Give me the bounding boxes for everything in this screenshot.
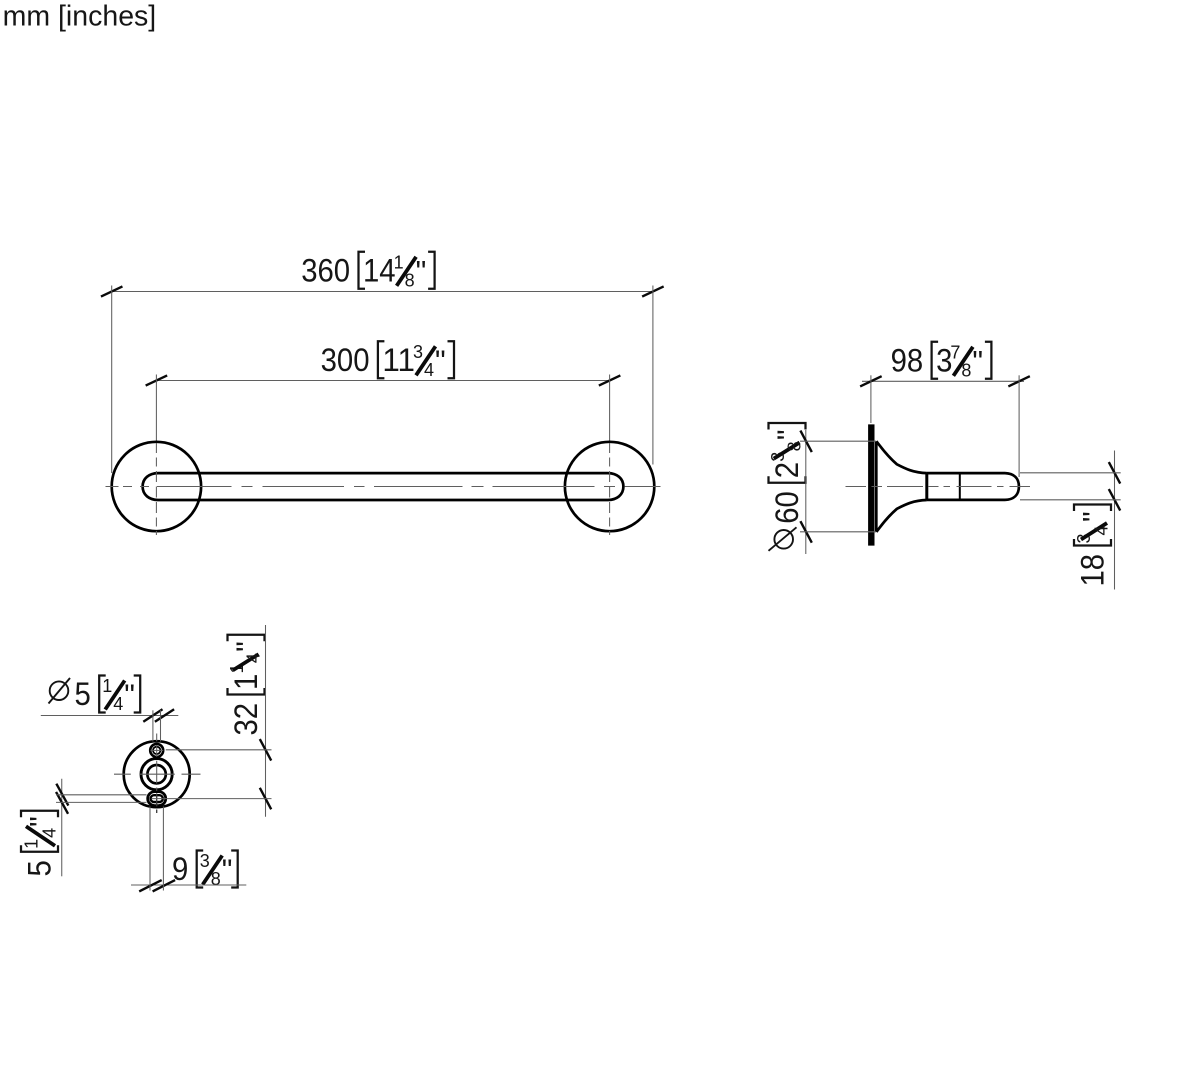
- top screw hole inner circle: [153, 747, 160, 754]
- dimension 98 line: [862, 380, 1024, 382]
- svg-text:360: 360: [301, 252, 350, 288]
- svg-text:1: 1: [228, 674, 264, 690]
- bar (side) outline with end cap: [927, 473, 1019, 500]
- svg-text:4: 4: [40, 828, 60, 838]
- plate vertical centerline: [156, 734, 158, 791]
- bottom slot inner outline: [151, 795, 163, 802]
- svg-text:1: 1: [102, 676, 112, 696]
- extension line d5 left: [152, 710, 154, 741]
- center hole outer circle: [141, 759, 172, 790]
- dimension 300 label: [321, 341, 454, 380]
- tick bottom 5: [56, 792, 68, 814]
- svg-text:98: 98: [891, 342, 924, 378]
- svg-text:60: 60: [769, 491, 805, 524]
- slot vertical centerline: [156, 793, 158, 813]
- svg-text:1: 1: [394, 252, 404, 272]
- side axis centerline: [846, 486, 1031, 488]
- tick top 18: [1109, 462, 1120, 484]
- tick 1 9: [139, 880, 162, 891]
- extension line 32 bottom: [152, 798, 272, 800]
- svg-text:5: 5: [22, 860, 58, 876]
- svg-text:3: 3: [413, 342, 423, 362]
- extension line 360 right: [652, 286, 654, 465]
- bar joint line (side): [959, 473, 961, 500]
- vertical centerline left circle: [155, 443, 157, 535]
- svg-text:11: 11: [382, 342, 415, 378]
- extension line 360 left: [111, 286, 113, 474]
- svg-text:": ": [435, 345, 446, 378]
- tick left 360: [101, 286, 123, 296]
- flange trumpet profile (side): [876, 441, 927, 532]
- svg-text:": ": [1078, 511, 1111, 522]
- svg-text:32: 32: [228, 703, 264, 736]
- extension line 18 top: [1020, 472, 1121, 474]
- tick 2 d5: [155, 709, 174, 722]
- extension line 9 left: [149, 807, 151, 891]
- dimension d60 line: [805, 430, 807, 554]
- extension line 300 left: [155, 375, 157, 442]
- extension line d60 bottom: [800, 531, 876, 533]
- extension line 32 top: [166, 749, 272, 751]
- tick right 98: [1008, 376, 1030, 386]
- dimension d60 label: [768, 423, 806, 551]
- svg-text:mm [inches]: mm [inches]: [3, 1, 157, 33]
- extension line 18 bottom: [1020, 499, 1121, 501]
- plate horizontal centerline: [114, 773, 201, 775]
- extension line 9 right: [162, 807, 164, 891]
- svg-text:4: 4: [113, 694, 123, 714]
- dimension 32 label: [227, 635, 265, 736]
- svg-text:8: 8: [211, 869, 221, 889]
- top screw hole outer circle: [150, 744, 163, 757]
- dimension 360 line: [112, 291, 653, 293]
- dimension 18 label: [1074, 505, 1112, 587]
- wall line (mounting surface): [868, 424, 874, 545]
- extension line 300 right: [609, 375, 611, 442]
- tick 1 d5: [143, 709, 162, 722]
- dimension d5 line: [41, 715, 179, 717]
- dimension 98 label: [891, 342, 992, 381]
- tick top d60: [800, 431, 811, 453]
- svg-text:4: 4: [424, 360, 434, 380]
- extension line d60 top: [800, 440, 876, 442]
- tick bottom 18: [1109, 489, 1120, 511]
- tick top 5: [56, 784, 68, 806]
- extension line 5 bottom: [56, 801, 147, 803]
- bottom slot outer outline: [148, 792, 166, 806]
- extension line d5 right: [160, 710, 162, 741]
- top hole horizontal cross: [151, 749, 164, 751]
- dimension 32 line: [265, 625, 267, 817]
- towel bar outline (front): [143, 473, 624, 500]
- svg-text:7: 7: [950, 342, 960, 362]
- svg-text:": ": [124, 679, 135, 712]
- svg-text:8: 8: [961, 360, 971, 380]
- dimension 5 label: [21, 811, 60, 877]
- svg-text:300: 300: [321, 342, 370, 378]
- tick right 360: [642, 286, 664, 296]
- tick right 300: [599, 375, 621, 385]
- svg-text:3: 3: [200, 851, 210, 871]
- dimension 18 line: [1114, 451, 1116, 590]
- left flange circle: [112, 442, 201, 531]
- tick bottom d60: [800, 521, 811, 543]
- dimension 5 line: [61, 779, 63, 877]
- horizontal centerline (front axis): [106, 486, 661, 488]
- svg-text:1: 1: [22, 839, 42, 849]
- extension line 98 left: [870, 375, 872, 423]
- svg-text:": ": [416, 255, 427, 288]
- dimension 360 label: [301, 252, 434, 290]
- tick top 32: [260, 739, 271, 761]
- svg-text:4: 4: [244, 653, 264, 663]
- svg-text:5: 5: [75, 676, 91, 712]
- dimension d5 label: [49, 676, 141, 715]
- flange neck joint line: [925, 472, 928, 500]
- svg-text:4: 4: [1092, 525, 1112, 535]
- svg-text:2: 2: [769, 462, 805, 478]
- center hole inner circle: [147, 765, 165, 783]
- svg-text:14: 14: [363, 252, 396, 288]
- svg-text:": ": [972, 345, 983, 378]
- tick 2 9: [153, 880, 176, 891]
- extension line 98 right: [1018, 375, 1020, 477]
- tick bottom 32: [260, 788, 271, 810]
- mounting plate circle: [124, 741, 190, 807]
- svg-text:": ": [231, 641, 264, 652]
- tick left 300: [146, 375, 168, 385]
- extension line 5 top: [56, 794, 147, 796]
- dimension 300 line: [156, 380, 609, 382]
- svg-text:": ": [25, 816, 58, 827]
- svg-text:18: 18: [1075, 554, 1111, 587]
- svg-text:8: 8: [785, 441, 805, 451]
- dimension 9 label: [172, 851, 238, 890]
- dimension 9 line: [131, 884, 246, 886]
- tick left 98: [860, 376, 882, 386]
- svg-text:": ": [222, 854, 233, 887]
- svg-text:8: 8: [405, 270, 415, 290]
- right flange circle: [565, 442, 654, 531]
- vertical centerline right circle: [609, 443, 611, 535]
